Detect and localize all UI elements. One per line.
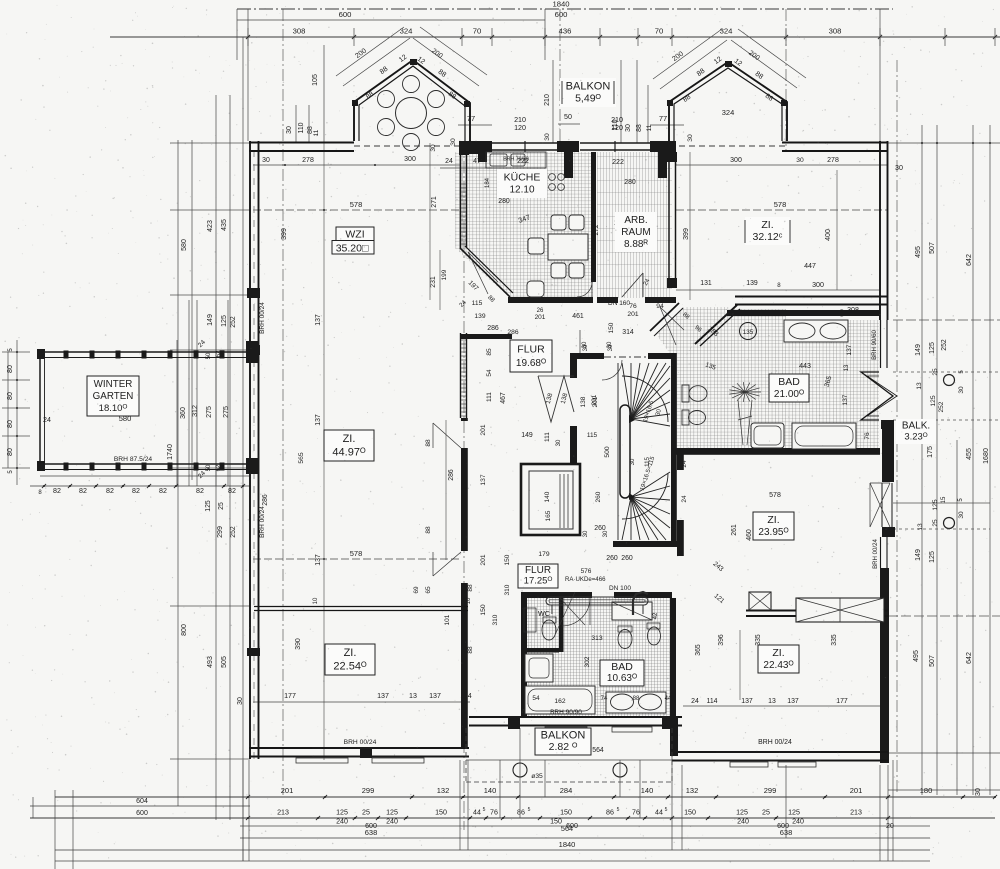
svg-text:324: 324 <box>720 27 734 36</box>
bad10 bathtub <box>525 686 595 714</box>
svg-text:299: 299 <box>216 526 224 538</box>
svg-text:35.20□: 35.20□ <box>336 243 369 255</box>
svg-text:213: 213 <box>850 809 862 817</box>
svg-text:13: 13 <box>843 364 850 371</box>
label WZI 35.20 <box>336 227 374 241</box>
svg-text:137: 137 <box>480 474 487 485</box>
kitchen counter with sinks <box>486 152 546 168</box>
T column mid balcony <box>557 141 579 152</box>
svg-text:423: 423 <box>207 220 214 232</box>
svg-text:335: 335 <box>831 634 838 646</box>
svg-text:13: 13 <box>768 698 776 705</box>
svg-text:BRH 00/24: BRH 00/24 <box>259 302 266 334</box>
svg-text:132: 132 <box>686 786 699 795</box>
svg-text:30: 30 <box>607 344 614 351</box>
svg-text:19.68ᴼ: 19.68ᴼ <box>516 358 546 369</box>
svg-text:30: 30 <box>958 386 965 394</box>
svg-text:600: 600 <box>136 810 148 817</box>
stairwell walls <box>570 353 604 359</box>
svg-text:286: 286 <box>262 494 269 506</box>
svg-text:86: 86 <box>606 809 614 817</box>
svg-text:580: 580 <box>181 239 188 251</box>
label BALKON 2.82 <box>535 728 591 755</box>
svg-text:76: 76 <box>632 809 640 817</box>
svg-text:WINTER: WINTER <box>94 379 133 390</box>
wall flur top / kitchen bottom <box>508 297 593 303</box>
wc door swings bad10 <box>560 598 585 625</box>
svg-text:308: 308 <box>829 27 842 36</box>
svg-text:BAD: BAD <box>778 376 800 388</box>
svg-text:8.88ᴿ: 8.88ᴿ <box>624 239 648 250</box>
svg-text:10: 10 <box>466 597 472 604</box>
svg-text:WZI: WZI <box>345 229 364 241</box>
svg-text:BALK.: BALK. <box>902 421 930 432</box>
svg-text:231: 231 <box>430 276 437 288</box>
bad 21 bottom wall <box>676 448 880 455</box>
svg-text:13: 13 <box>409 692 417 700</box>
bad 21.00 floor hatch <box>682 309 879 450</box>
bad21 sink counter <box>784 320 848 342</box>
svg-text:WC: WC <box>538 609 550 618</box>
wall WZI/kitchen <box>460 141 462 248</box>
svg-text:495: 495 <box>913 650 920 662</box>
wintergarten outer dims <box>16 340 18 485</box>
svg-text:150: 150 <box>480 604 487 615</box>
kitchen table and chairs <box>548 234 588 260</box>
svg-text:54: 54 <box>486 369 493 377</box>
svg-text:ZI.: ZI. <box>772 647 784 659</box>
svg-text:600: 600 <box>555 10 568 19</box>
svg-text:82: 82 <box>196 487 204 495</box>
svg-text:88: 88 <box>633 696 640 702</box>
bad21 tub 1 <box>751 423 784 448</box>
svg-text:201: 201 <box>627 311 638 318</box>
svg-text:137: 137 <box>846 344 853 355</box>
bad21 circled 135 <box>740 323 757 340</box>
svg-text:30: 30 <box>958 511 965 519</box>
label ZI 23.95 <box>753 512 794 540</box>
vent pipe drawing <box>633 592 648 615</box>
svg-text:310: 310 <box>504 584 511 595</box>
svg-text:505: 505 <box>221 656 228 668</box>
svg-text:149: 149 <box>206 314 214 326</box>
bad10 sink counter bottom <box>606 692 666 713</box>
svg-text:70: 70 <box>473 27 482 36</box>
svg-text:149: 149 <box>914 549 922 561</box>
svg-text:24: 24 <box>445 158 453 165</box>
svg-text:88: 88 <box>467 584 474 592</box>
svg-text:240: 240 <box>792 818 804 826</box>
outer wall: bottom of ZI 22.54 <box>249 747 469 749</box>
svg-text:10.63ᴼ: 10.63ᴼ <box>607 673 637 684</box>
svg-text:467: 467 <box>500 392 507 404</box>
svg-text:76: 76 <box>490 809 498 817</box>
svg-text:260: 260 <box>621 555 633 562</box>
bottom window band right room <box>716 751 821 753</box>
svg-text:240: 240 <box>737 818 749 826</box>
svg-text:82: 82 <box>106 487 114 495</box>
svg-text:KÜCHE: KÜCHE <box>504 171 541 183</box>
top dimension lines <box>237 8 893 10</box>
svg-text:17.25ᴼ: 17.25ᴼ <box>524 575 553 586</box>
svg-text:578: 578 <box>350 549 363 558</box>
svg-text:800: 800 <box>181 624 188 636</box>
svg-text:1840: 1840 <box>559 840 576 849</box>
zi23.95 west wall <box>677 448 684 470</box>
svg-text:BRH 90/60: BRH 90/60 <box>871 329 878 359</box>
svg-text:177: 177 <box>836 698 848 705</box>
svg-text:10: 10 <box>313 597 319 604</box>
svg-text:179: 179 <box>538 551 549 558</box>
svg-text:82: 82 <box>79 487 87 495</box>
svg-text:271: 271 <box>431 196 438 208</box>
svg-text:314: 314 <box>622 329 634 336</box>
svg-text:5,49ᴼ: 5,49ᴼ <box>575 93 601 105</box>
balcony dashed outline <box>466 781 672 783</box>
svg-text:110: 110 <box>298 122 305 133</box>
svg-text:88: 88 <box>467 646 474 654</box>
svg-text:150: 150 <box>608 322 615 333</box>
svg-text:82: 82 <box>132 487 140 495</box>
svg-text:BRH 70/30: BRH 70/30 <box>503 157 528 163</box>
svg-text:24: 24 <box>681 495 688 503</box>
label FLUR 17.25 <box>518 564 558 588</box>
svg-text:638: 638 <box>365 828 378 837</box>
right wall door with X swing <box>881 483 883 527</box>
svg-text:390: 390 <box>295 638 302 650</box>
svg-text:76: 76 <box>629 303 637 310</box>
stair radial treads upper <box>618 363 670 540</box>
svg-text:210: 210 <box>611 116 623 124</box>
svg-text:30: 30 <box>582 344 589 351</box>
svg-text:642: 642 <box>966 254 973 266</box>
svg-text:310: 310 <box>492 614 499 625</box>
svg-text:495: 495 <box>915 246 922 258</box>
svg-text:137: 137 <box>315 414 322 426</box>
svg-text:578: 578 <box>769 492 781 499</box>
svg-text:80: 80 <box>6 420 14 428</box>
svg-text:286: 286 <box>448 469 455 481</box>
svg-text:BALKON: BALKON <box>541 729 586 741</box>
svg-text:213: 213 <box>277 809 289 817</box>
svg-text:115: 115 <box>644 457 651 467</box>
svg-text:260: 260 <box>606 555 618 562</box>
svg-text:88: 88 <box>425 439 432 447</box>
svg-text:137: 137 <box>315 554 322 566</box>
svg-text:137: 137 <box>842 394 849 405</box>
svg-text:175: 175 <box>926 446 934 458</box>
bad10 wc sink <box>524 608 536 632</box>
diagonal door corridor flur-bad <box>650 303 679 331</box>
svg-text:77: 77 <box>467 114 475 123</box>
svg-text:101: 101 <box>444 614 451 625</box>
svg-text:210: 210 <box>514 116 526 124</box>
svg-text:299: 299 <box>362 786 375 795</box>
svg-text:564: 564 <box>561 824 573 833</box>
svg-text:82: 82 <box>159 487 167 495</box>
label ARB RAUM 8.88 <box>615 212 657 252</box>
svg-text:252: 252 <box>230 526 237 538</box>
svg-text:275: 275 <box>222 406 230 418</box>
svg-text:275: 275 <box>205 406 213 418</box>
svg-text:140: 140 <box>544 491 551 502</box>
elevator shaft <box>521 464 580 535</box>
kitchen tile floor hatch <box>455 152 593 298</box>
svg-text:222: 222 <box>612 158 624 166</box>
svg-text:400: 400 <box>824 229 832 241</box>
svg-text:150: 150 <box>435 809 447 817</box>
svg-text:286: 286 <box>487 325 499 332</box>
stair spine <box>620 405 630 498</box>
svg-text:642: 642 <box>966 652 973 664</box>
svg-text:139: 139 <box>746 280 758 287</box>
bad21 plant scribble <box>729 382 761 445</box>
svg-text:BRH 00/24: BRH 00/24 <box>758 739 792 746</box>
svg-text:284: 284 <box>560 786 573 795</box>
svg-text:65: 65 <box>425 586 432 594</box>
label WINTERGARTEN 18.10 <box>87 376 139 416</box>
svg-text:1680: 1680 <box>982 448 990 464</box>
svg-text:BALKON: BALKON <box>566 80 611 92</box>
svg-text:111: 111 <box>486 392 493 402</box>
outer wall: left (double line) <box>249 141 251 759</box>
svg-text:85: 85 <box>486 348 493 356</box>
svg-text:54: 54 <box>532 695 540 702</box>
svg-text:493: 493 <box>207 656 214 668</box>
svg-text:455: 455 <box>965 448 973 460</box>
bottom dimension rows <box>55 796 995 798</box>
svg-text:280: 280 <box>624 179 636 186</box>
svg-text:447: 447 <box>804 262 816 270</box>
svg-text:BRH 90/90: BRH 90/90 <box>550 709 582 716</box>
right dimension columns <box>896 60 898 795</box>
svg-text:150: 150 <box>560 809 572 817</box>
svg-text:13: 13 <box>916 382 923 390</box>
svg-text:201: 201 <box>281 786 294 795</box>
bad10 washbasin square <box>525 654 553 682</box>
svg-text:15: 15 <box>941 496 947 503</box>
svg-text:69: 69 <box>413 586 420 594</box>
svg-text:201: 201 <box>480 424 487 435</box>
bad21 bidet <box>682 410 689 425</box>
svg-text:324: 324 <box>400 27 414 36</box>
label KUECHE 12.10 <box>497 169 547 198</box>
svg-text:12.10: 12.10 <box>509 185 534 196</box>
svg-text:507: 507 <box>929 655 936 667</box>
outer wall: top-right segment <box>782 142 888 144</box>
svg-text:50: 50 <box>206 464 212 471</box>
svg-text:132: 132 <box>437 786 450 795</box>
kitchen corner cabinet rounded <box>527 281 544 297</box>
svg-text:80: 80 <box>6 365 14 373</box>
svg-text:184: 184 <box>485 177 491 188</box>
svg-text:30: 30 <box>556 439 562 446</box>
svg-text:139: 139 <box>474 313 485 320</box>
svg-text:507: 507 <box>929 242 936 254</box>
svg-text:1840: 1840 <box>552 0 569 9</box>
svg-text:578: 578 <box>350 200 363 209</box>
svg-text:278: 278 <box>827 157 839 164</box>
svg-text:25: 25 <box>362 809 370 817</box>
svg-text:399: 399 <box>280 228 288 240</box>
label FLUR 19.68 <box>510 340 552 372</box>
wall kitchen/arb raum <box>591 152 596 282</box>
left dimension columns <box>177 140 179 806</box>
svg-text:399: 399 <box>682 228 690 240</box>
label ZI 32.12 <box>745 217 790 245</box>
label ZI 22.43 <box>758 645 799 673</box>
svg-text:240: 240 <box>386 818 398 826</box>
svg-text:137: 137 <box>741 698 753 705</box>
svg-text:436: 436 <box>559 27 572 36</box>
svg-text:201: 201 <box>535 314 546 321</box>
svg-text:125: 125 <box>788 809 800 817</box>
svg-text:86: 86 <box>517 809 525 817</box>
outer wall: top-left segment <box>249 142 354 144</box>
svg-text:150: 150 <box>684 809 696 817</box>
svg-text:435: 435 <box>221 219 228 231</box>
svg-text:50: 50 <box>564 113 572 121</box>
svg-text:ZI.: ZI. <box>343 433 356 445</box>
svg-text:21.00ᴼ: 21.00ᴼ <box>774 389 804 400</box>
svg-text:5: 5 <box>617 807 620 813</box>
svg-text:5: 5 <box>528 807 531 813</box>
balcony top window band right <box>580 142 650 144</box>
svg-text:137: 137 <box>377 692 389 700</box>
svg-text:115: 115 <box>587 432 598 439</box>
door swings wall G <box>433 423 461 448</box>
bad 10.63 floor hatch <box>527 597 672 716</box>
flur wardrobe zigzag <box>538 376 574 422</box>
bad10 entry door arc <box>562 598 590 626</box>
svg-text:30: 30 <box>544 133 551 141</box>
svg-text:302: 302 <box>584 656 591 667</box>
bad entry corridor hatch <box>656 307 730 450</box>
kitchen stove rings <box>549 174 556 181</box>
svg-text:500: 500 <box>604 446 611 457</box>
wall G: right wall of ZI44.97/ZI22.54 <box>460 333 462 418</box>
bad10.63 walls <box>521 592 592 598</box>
svg-text:180: 180 <box>920 786 933 795</box>
svg-text:BRH 00/24: BRH 00/24 <box>259 506 266 538</box>
svg-text:604: 604 <box>136 798 148 805</box>
bad21 tub 2 <box>792 423 856 449</box>
svg-text:ARB.: ARB. <box>624 215 647 226</box>
arbeitsraum floor hatch <box>597 152 672 298</box>
svg-text:30: 30 <box>625 124 632 132</box>
svg-text:252: 252 <box>938 401 945 412</box>
svg-text:30: 30 <box>796 157 804 164</box>
svg-text:278: 278 <box>302 157 314 164</box>
balcony columns <box>513 763 527 777</box>
svg-text:DN 100: DN 100 <box>609 585 631 592</box>
wall y335 flur west stub <box>461 334 512 339</box>
svg-text:82: 82 <box>228 487 236 495</box>
svg-text:BAD: BAD <box>611 661 633 673</box>
svg-text:44: 44 <box>473 809 481 817</box>
svg-text:131: 131 <box>700 280 712 287</box>
left bay window walls <box>354 60 470 141</box>
svg-text:125: 125 <box>930 395 937 406</box>
vent duct DN100 <box>546 597 648 605</box>
small shaft left <box>749 592 771 610</box>
svg-text:125: 125 <box>928 551 936 563</box>
label BAD 21.00 <box>769 374 809 402</box>
label ZI 22.54 <box>325 644 375 675</box>
right wall below balk: solid <box>881 420 894 429</box>
outer wall: bottom of ZI 22.43 <box>672 751 888 753</box>
svg-text:177: 177 <box>284 692 296 700</box>
door arcs into stair area <box>579 330 581 353</box>
svg-text:125: 125 <box>928 342 936 354</box>
svg-text:77: 77 <box>659 114 667 123</box>
svg-text:42: 42 <box>653 612 659 619</box>
svg-text:74: 74 <box>601 696 608 702</box>
round dining table in left bay <box>396 98 427 129</box>
svg-text:396: 396 <box>718 634 725 646</box>
bad21 top wall <box>727 310 880 316</box>
top wall piece right of balcony <box>650 141 676 152</box>
svg-text:199: 199 <box>441 269 448 280</box>
outer wall: bottom of bad strip <box>469 716 682 718</box>
interior dimension chains <box>253 164 460 166</box>
svg-text:149: 149 <box>521 432 533 439</box>
right bay window walls <box>669 62 787 141</box>
label BALKON 5.49 <box>560 78 616 107</box>
wintergarten walls <box>40 351 249 353</box>
svg-text:30: 30 <box>450 138 457 146</box>
svg-text:2.82 ᴼ: 2.82 ᴼ <box>549 741 578 753</box>
wall between zi23.95 and zi22.43 <box>746 610 888 612</box>
svg-text:ø35: ø35 <box>531 773 543 780</box>
svg-text:94: 94 <box>656 303 664 310</box>
bad10 wc toilet <box>542 620 556 640</box>
pointed balcony bay right <box>861 372 893 420</box>
left bay angled dims <box>336 27 404 76</box>
svg-text:105: 105 <box>311 74 319 86</box>
svg-text:3.23ᴼ: 3.23ᴼ <box>904 431 927 442</box>
svg-text:308: 308 <box>293 27 306 36</box>
stair radial treads lower <box>622 497 631 540</box>
label ZI 44.97 <box>324 430 374 461</box>
svg-text:30: 30 <box>286 126 293 134</box>
svg-text:76: 76 <box>864 432 871 440</box>
svg-text:564: 564 <box>592 747 604 754</box>
outer wall: right upper <box>879 141 881 320</box>
svg-text:149: 149 <box>914 344 922 356</box>
svg-text:1740: 1740 <box>166 444 174 460</box>
svg-text:25: 25 <box>762 809 770 817</box>
stair curved tread edges <box>622 376 668 422</box>
svg-text:324: 324 <box>722 108 735 117</box>
svg-text:22.43ᴼ: 22.43ᴼ <box>763 660 793 671</box>
svg-text:44.97ᴼ: 44.97ᴼ <box>332 446 366 458</box>
svg-text:50: 50 <box>206 352 212 359</box>
svg-text:ZI.: ZI. <box>761 219 773 231</box>
bad10 shower top <box>612 602 652 620</box>
svg-text:461: 461 <box>572 313 584 320</box>
svg-text:600: 600 <box>339 10 352 19</box>
svg-text:5: 5 <box>665 807 668 813</box>
svg-text:23.95ᴼ: 23.95ᴼ <box>758 527 788 538</box>
top wall step at balcony left <box>466 141 492 152</box>
wall arb bottom with door gap <box>597 297 618 303</box>
svg-text:135: 135 <box>743 329 754 336</box>
svg-text:ZI.: ZI. <box>344 647 357 659</box>
svg-text:80: 80 <box>6 448 14 456</box>
svg-text:BRH 00/24: BRH 00/24 <box>344 739 377 746</box>
svg-text:RAUM: RAUM <box>621 227 650 238</box>
